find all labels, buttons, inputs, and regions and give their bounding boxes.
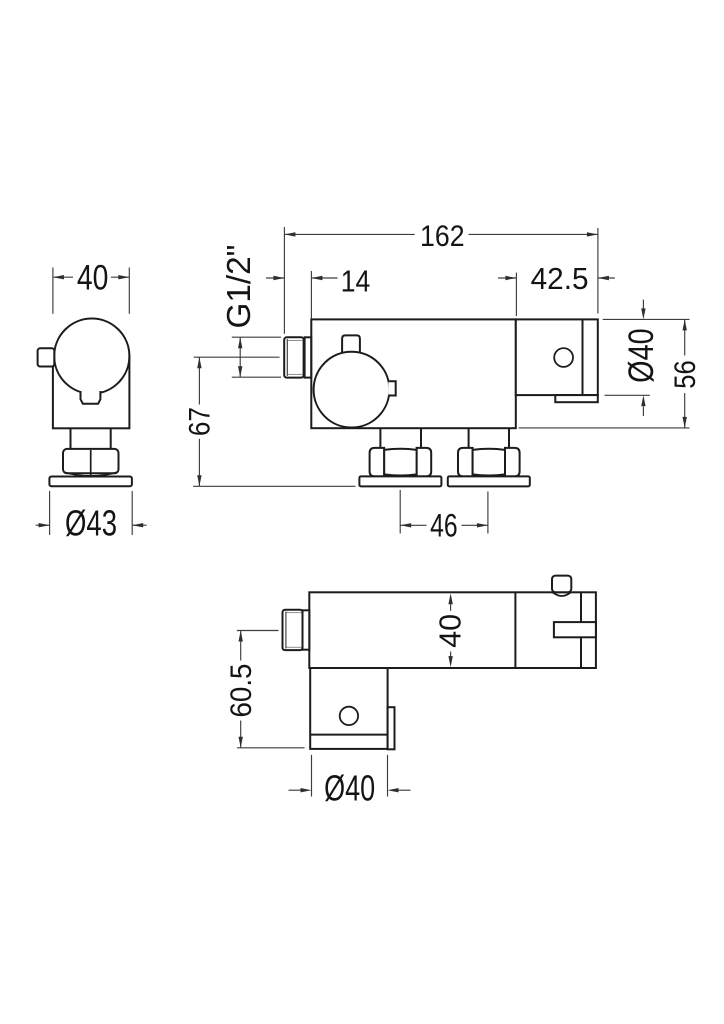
right outlet section <box>516 319 598 395</box>
dimension 60.5 <box>237 630 279 632</box>
top tab (bottom view) <box>552 576 571 593</box>
svg-text:40: 40 <box>77 258 109 297</box>
side tab on knob <box>38 348 55 366</box>
dimension 40 (bottom view) <box>448 593 452 604</box>
dimension 67 <box>194 356 280 358</box>
svg-text:42.5: 42.5 <box>531 261 589 296</box>
dimension 42.5 <box>515 273 517 316</box>
hex nut (side, vertex on) <box>63 449 119 473</box>
svg-text:162: 162 <box>420 220 465 253</box>
dimension 46 <box>399 490 401 534</box>
svg-text:14: 14 <box>341 264 371 299</box>
base flange <box>49 477 131 487</box>
ledge under outlet <box>555 395 598 402</box>
dimension Ø43 <box>49 491 51 535</box>
knob circle (front) <box>314 352 390 428</box>
dimension Ø40 (bottom) <box>311 755 313 797</box>
knob circle (side) <box>54 319 129 394</box>
svg-text:Ø43: Ø43 <box>65 502 117 543</box>
svg-text:56: 56 <box>669 360 702 389</box>
collar (bottom) <box>303 610 310 649</box>
side body <box>53 356 129 428</box>
dimension G1/2" <box>232 336 281 338</box>
inner right line <box>580 592 582 668</box>
square section <box>310 668 387 749</box>
division line <box>514 592 516 668</box>
thread G1/2 <box>284 337 303 377</box>
main body <box>311 319 516 428</box>
thread (bottom) <box>283 610 303 650</box>
svg-text:Ø40: Ø40 <box>324 767 375 808</box>
slot bar <box>554 622 596 637</box>
svg-text:60.5: 60.5 <box>225 664 258 718</box>
stem <box>70 428 72 449</box>
svg-text:67: 67 <box>184 407 217 436</box>
knob right tab <box>388 381 395 395</box>
flange 1 <box>359 476 441 486</box>
svg-text:Ø40: Ø40 <box>622 328 661 383</box>
dimension 56 <box>519 427 690 429</box>
knob bottom notch <box>81 391 101 404</box>
dimension Ø40 (right) <box>603 318 690 320</box>
hex nut 1 (front) <box>370 448 385 477</box>
nut stems <box>379 428 381 448</box>
dimension 40 (side) <box>52 268 54 314</box>
dimension 162 <box>283 227 285 334</box>
svg-text:40: 40 <box>433 614 468 648</box>
thread collar <box>305 337 312 377</box>
hex nut 2 (front) <box>458 448 473 477</box>
svg-text:46: 46 <box>430 507 458 543</box>
right tab of square <box>388 707 395 749</box>
svg-text:G1/2": G1/2" <box>220 245 257 329</box>
outlet hole circle <box>554 348 573 367</box>
knob top tab <box>342 335 360 354</box>
inner edge line <box>582 319 584 395</box>
dimension 14 <box>310 271 312 319</box>
flange 2 <box>448 476 530 486</box>
body (bottom view) <box>309 592 596 668</box>
